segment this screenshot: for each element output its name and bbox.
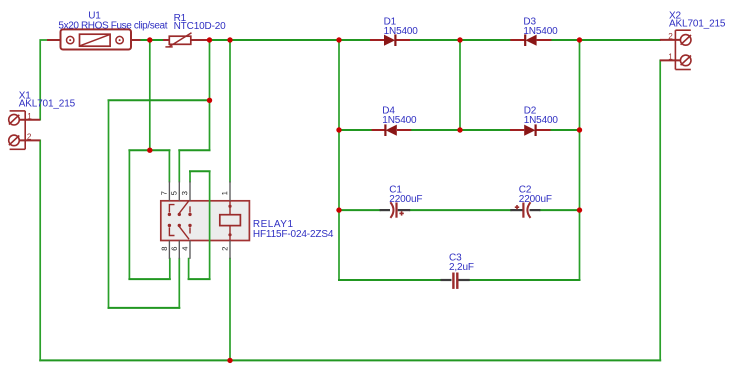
relay pin 4 stub [189,241,191,259]
wire: net A riser to relay pin6 [178,259,180,308]
junction: top rail relay pin1 branch x=230 [227,37,232,42]
relay pin 5 stub [178,181,180,200]
junction: top rail at R1 output x=209.5 [207,37,212,42]
capacitor C1 [380,202,411,218]
wire: capacitor row right [540,209,579,211]
svg-text:1N5400: 1N5400 [523,26,558,37]
wire: net B riser to relay pin8 [169,259,171,280]
wire: vertical drop net A at x=209.5 [209,41,211,150]
svg-text:2200uF: 2200uF [389,194,422,205]
svg-text:1: 1 [27,112,32,121]
X2 pin 1 screw terminal [680,55,691,66]
wire: D2 row right [551,129,580,131]
wire: net A horizontal branch at y=100.3 [109,99,210,101]
wire: net A left vertical down [108,100,110,308]
svg-text:2: 2 [27,133,32,142]
junction: top rail bridge left x=339 [336,37,341,42]
svg-text:2: 2 [668,32,673,41]
junction: top rail at fuse output x=150 [147,37,152,42]
wire: C3 row left [339,279,441,281]
svg-text:2200uF: 2200uF [519,194,552,205]
X2 pin 2 screw terminal [680,35,691,46]
relay pin stubs [169,181,230,258]
relay contact pole 1 (top) [169,201,190,214]
diode D4 [372,124,412,136]
relay pin 7 stub [168,181,170,200]
wire: net A bottom horizontal [109,307,180,309]
wire: D4 row middle [411,129,510,131]
relay contact pole 2 (bottom) [169,227,190,240]
wire: vertical drop net B at x=150 [149,41,151,150]
wire: net C bottom horizontal to pin4 [189,278,210,280]
wire: net C riser to relay pin4 [188,259,190,280]
wire: net A horizontal to pin5 column [179,149,209,151]
capacitor C3 [441,273,470,289]
junction: top rail bridge middle x=460 [457,37,462,42]
wire: X2 pin1 drop to bottom rail [659,60,661,360]
connector X2 [660,30,691,69]
wire: capacitor row middle [410,209,511,211]
wire: top rail fuse to R1 [140,39,166,41]
junction: bottom rail relay pin2 [227,358,232,363]
relay pin number 5 [171,191,176,195]
wire: top rail D3 to X2 pin2 [551,39,660,41]
svg-text:NTC10D-20: NTC10D-20 [174,21,227,32]
relay pin number 4 [182,247,187,251]
junction: D2 row right [577,127,582,132]
junction: net B branch [147,148,152,153]
diode D3 [510,34,551,46]
svg-text:HF115F-024-2ZS4: HF115F-024-2ZS4 [253,229,334,240]
relay pin number 6 [171,247,176,251]
junction: net A branch [207,98,212,103]
diode D1 [370,34,410,46]
connector X1 [9,111,41,149]
relay coil [220,201,241,241]
wire: X1 pin2 drop to bottom rail [39,140,41,360]
svg-text:1N5400: 1N5400 [382,115,417,126]
wire: bridge right column x=579.5 [579,41,581,280]
junction: D4 row middle [457,127,462,132]
wire: net B left vertical down [128,150,130,279]
wire: top rail drop to relay pin1 [229,41,231,182]
wire: top rail D1 to D3 [410,39,511,41]
wire: net C horizontal pin3 to through-column [190,170,210,172]
wire: capacitor row left [339,209,380,211]
svg-text:AKL701_215: AKL701_215 [19,99,76,110]
wire: relay pin3 riser [189,171,191,181]
relay pin number 8 [162,247,167,251]
X1 pin 1 screw terminal [9,114,20,125]
wire: net A drop to relay pin5 [178,150,180,181]
wire: net B drop to relay pin7 [168,150,170,181]
relay pin 2 stub [229,241,231,259]
junction: cap row left [336,207,341,212]
relay pin number 3 [182,191,187,195]
junction: cap row right [577,207,582,212]
svg-text:AKL701_215: AKL701_215 [669,19,726,30]
wire: C3 row right [470,279,580,281]
wire: D4 row left [339,129,372,131]
wire: net B bottom horizontal to pin8 [129,278,169,280]
relay pin number 1 [222,191,227,194]
fuse U1 [47,29,141,49]
svg-text:1N5400: 1N5400 [384,26,419,37]
relay pin 6 stub [178,241,180,259]
relay pin 3 stub [189,181,191,200]
relay pin 8 stub [168,241,170,259]
svg-text:1N5400: 1N5400 [524,115,559,126]
svg-text:2,2uF: 2,2uF [449,262,474,273]
svg-text:1: 1 [668,52,673,61]
capacitor C2 [510,202,540,218]
relay pin number 2 [222,247,227,250]
wire: bottom rail [40,359,660,361]
junction: D4 row left [336,127,341,132]
relay RELAY1 body [161,201,250,241]
wire: bridge left column x=339 [338,41,340,280]
diode D2 [510,124,551,136]
wire: bridge middle column x=460 [459,41,461,130]
svg-text:5x20 RHOS Fuse clip/seat: 5x20 RHOS Fuse clip/seat [58,20,167,31]
wire: net C vertical through relay [209,171,211,279]
wire: relay pin2 drop to bottom rail [229,259,231,361]
junction: top rail bridge right x=579.5 [577,37,582,42]
relay pin number 7 [161,191,166,194]
wire: top rail R1 to D1 [207,39,371,41]
X1 pin 2 screw terminal [9,135,20,146]
relay pin 1 stub [229,181,231,200]
wire: X1 pin1 up to top rail [40,40,47,120]
thermistor R1 [163,33,209,47]
wire: net B left branch horizontal [129,149,169,151]
